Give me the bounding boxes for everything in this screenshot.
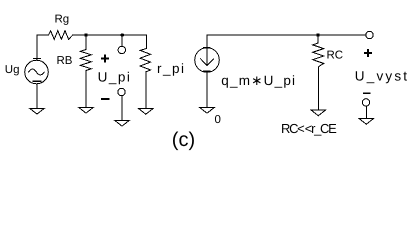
minus tick of Ug bbox=[33, 80, 41, 82]
top tick of current source bbox=[204, 47, 210, 49]
wire: RC to ground bbox=[317, 69, 319, 110]
svg-text:Rg: Rg bbox=[55, 13, 70, 25]
wire: top-left corner from Ug up and right to Rg bbox=[37, 35, 49, 61]
node: U_pi top terminal open circle bbox=[118, 46, 125, 53]
node: output terminal open circle bbox=[366, 31, 373, 38]
wire: RB to ground bbox=[85, 71, 87, 108]
bottom tick of current source bbox=[204, 70, 210, 72]
svg-text:U_pi: U_pi bbox=[98, 69, 132, 84]
plus sign U_vyst bbox=[365, 52, 372, 54]
node: output bottom terminal open circle bbox=[362, 99, 369, 106]
ground (RB) bbox=[79, 107, 94, 113]
node junction dot at U_pi stub bbox=[121, 33, 124, 36]
svg-text:q_m∗U_pi: q_m∗U_pi bbox=[221, 73, 296, 88]
node junction dot at RB bbox=[84, 33, 87, 36]
wire: top bus from Rg to r_pi corner bbox=[73, 34, 147, 36]
plus tick of Ug bbox=[34, 58, 41, 60]
wire: U_pi bottom terminal to ground bbox=[121, 96, 123, 121]
current source q_m*U_pi bbox=[195, 48, 220, 73]
resistor RC bbox=[313, 35, 324, 69]
wire: current source top corner to output bus bbox=[207, 35, 366, 48]
wire: output bottom terminal to ground bbox=[365, 106, 367, 118]
arrow of current source bbox=[206, 48, 208, 66]
resistor Rg bbox=[49, 31, 73, 40]
resistor RB bbox=[80, 35, 91, 71]
svg-text:RB: RB bbox=[57, 55, 73, 67]
node junction dot at RC bbox=[316, 33, 319, 36]
ground (Ug) bbox=[30, 108, 45, 114]
wire: r_pi to ground bbox=[145, 72, 147, 109]
wire: stub to U_pi top terminal bbox=[121, 35, 123, 46]
svg-text:U_vyst: U_vyst bbox=[355, 68, 409, 83]
svg-text:RC< <r_CE: RC< <r_CE bbox=[281, 121, 337, 136]
ground (current source) node 0 bbox=[200, 108, 215, 114]
resistor r_pi bbox=[140, 35, 150, 72]
ground (U_pi terminal) bbox=[115, 120, 130, 126]
svg-text:r_pi: r_pi bbox=[157, 61, 186, 76]
node: U_pi bottom terminal open circle bbox=[118, 88, 125, 95]
svg-text:(c): (c) bbox=[172, 129, 195, 151]
wire: Ug bottom to ground bbox=[36, 84, 38, 108]
minus sign U_pi bbox=[102, 98, 109, 100]
minus sign U_vyst bbox=[364, 92, 370, 94]
svg-text:Ug: Ug bbox=[5, 64, 20, 76]
ground (r_pi) bbox=[139, 109, 154, 115]
svg-text:RC: RC bbox=[327, 49, 344, 61]
wire: current source bottom to ground bbox=[206, 72, 208, 107]
svg-text:0: 0 bbox=[215, 114, 221, 126]
voltage source Ug bbox=[25, 60, 49, 84]
plus sign U_pi bbox=[102, 58, 109, 60]
ground (output terminal) bbox=[359, 119, 374, 125]
ground (RC) bbox=[311, 110, 326, 116]
